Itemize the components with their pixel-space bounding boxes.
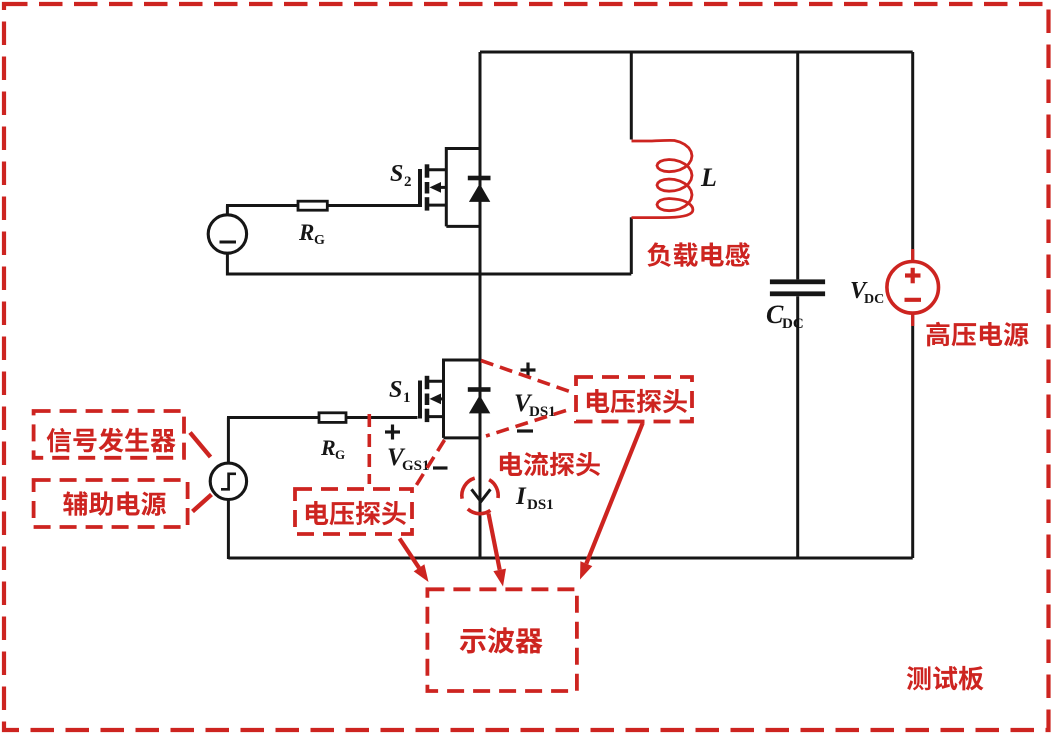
- annotation box 电压探头 (right): [576, 377, 692, 422]
- wire gate loop S1 top stub: [227, 418, 230, 464]
- transistor S1 drain/source stubs and outer box: [427, 360, 480, 438]
- transistor S1 channel segments: [425, 376, 430, 422]
- label 负载电感 (load inductor): [647, 242, 671, 266]
- svg-text:S: S: [389, 377, 402, 403]
- svg-text:DS1: DS1: [527, 497, 554, 513]
- wire bottom rail: [228, 557, 912, 560]
- wire capacitor branch bottom: [796, 296, 799, 558]
- wire main half-bridge vertical (drain-source chain): [479, 52, 482, 558]
- body diode of S2: [468, 176, 491, 181]
- transistor S2 body arrow: [434, 186, 446, 189]
- transistor S1 gate bar: [418, 381, 422, 419]
- leader 辅助电源 to source V1: [193, 495, 212, 512]
- wire gate loop S1 horizontal left: [227, 416, 319, 419]
- wire gate loop S2 horizontal left: [226, 204, 299, 207]
- label minus of VGS1: [433, 466, 448, 469]
- svg-text:L: L: [700, 163, 717, 192]
- wire gate loop S1 horizontal right: [346, 416, 418, 419]
- source V1 (signal generator, circle with step symbol): [210, 463, 246, 499]
- label 电流探头 (current probe): [500, 452, 522, 476]
- dashed leader gate wire to 电压探头 left: [367, 414, 371, 484]
- body diode of S1: [468, 387, 491, 392]
- svg-text:R: R: [320, 435, 336, 460]
- label 示波器: [460, 629, 486, 654]
- arrow current probe to oscilloscope: [489, 514, 500, 570]
- resistor RG (upper): [298, 201, 327, 210]
- dashed leader 电压探头 right to minus: [486, 411, 566, 437]
- wire V_DC branch top: [911, 52, 914, 262]
- svg-text:1: 1: [403, 390, 411, 406]
- wire gate loop S1 bottom stub: [227, 499, 230, 559]
- svg-text:S: S: [390, 161, 403, 187]
- wire inductor branch bottom: [630, 217, 633, 274]
- dashed leader S1 source to 电压探头 left: [416, 440, 445, 487]
- arrow 电压探头 left to oscilloscope: [400, 539, 420, 568]
- svg-text:2: 2: [404, 174, 412, 190]
- wire gate loop S2 horizontal right: [327, 204, 421, 207]
- transistor S2 channel segments: [425, 164, 430, 210]
- label 信号发生器 (signal generator): [47, 428, 71, 453]
- label 电压探头 right: [587, 389, 609, 413]
- label plus of VGS1: [385, 425, 400, 440]
- label 电压探头 left: [306, 501, 328, 525]
- svg-text:G: G: [335, 447, 345, 462]
- current probe arrow (black): [472, 489, 491, 501]
- inductor L (red coil): [632, 140, 693, 217]
- annotation box 信号发生器: [34, 411, 184, 458]
- wire gate loop S2 (source bottom stub): [226, 253, 229, 276]
- transistor S2 drain/source stubs and outer box: [427, 149, 480, 227]
- wire inductor branch top: [630, 52, 633, 140]
- source V2 (upper gate driver, circle with minus): [208, 215, 246, 253]
- source VDC (red circle with plus minus): [887, 249, 939, 326]
- label plus of VDS1: [521, 363, 536, 378]
- svg-text:GS1: GS1: [402, 458, 430, 474]
- current probe circle (red): [462, 478, 498, 514]
- wire gate loop S2 (source top stub): [226, 206, 229, 216]
- wire V_DC branch bottom: [911, 313, 914, 558]
- label 高压电源 (HV supply): [926, 322, 949, 347]
- wire middle rail (switch node): [227, 273, 631, 276]
- label 测试板 (test board): [907, 666, 931, 690]
- svg-text:G: G: [314, 233, 325, 248]
- transistor S1 body arrow: [434, 397, 444, 400]
- svg-text:DC: DC: [864, 292, 884, 307]
- leader 信号发生器 to source V1: [190, 433, 211, 458]
- svg-text:R: R: [298, 220, 314, 245]
- annotation box 辅助电源: [34, 480, 188, 527]
- transistor S2 gate bar: [418, 169, 422, 207]
- resistor RG (lower): [319, 413, 346, 423]
- dashed leader S1 drain to 电压探头 right: [481, 361, 574, 394]
- annotation box 示波器 (oscilloscope): [427, 589, 577, 691]
- label 辅助电源 (auxiliary supply): [63, 491, 87, 515]
- label minus of VDS1: [517, 429, 533, 432]
- annotation box 电压探头 (left): [295, 489, 412, 534]
- svg-text:DC: DC: [782, 316, 804, 332]
- arrow 电压探头 right to oscilloscope: [586, 423, 642, 564]
- wire capacitor branch top: [796, 52, 799, 279]
- capacitor CDC plates: [770, 279, 825, 284]
- svg-text:I: I: [515, 483, 527, 510]
- wire top rail: [480, 51, 913, 54]
